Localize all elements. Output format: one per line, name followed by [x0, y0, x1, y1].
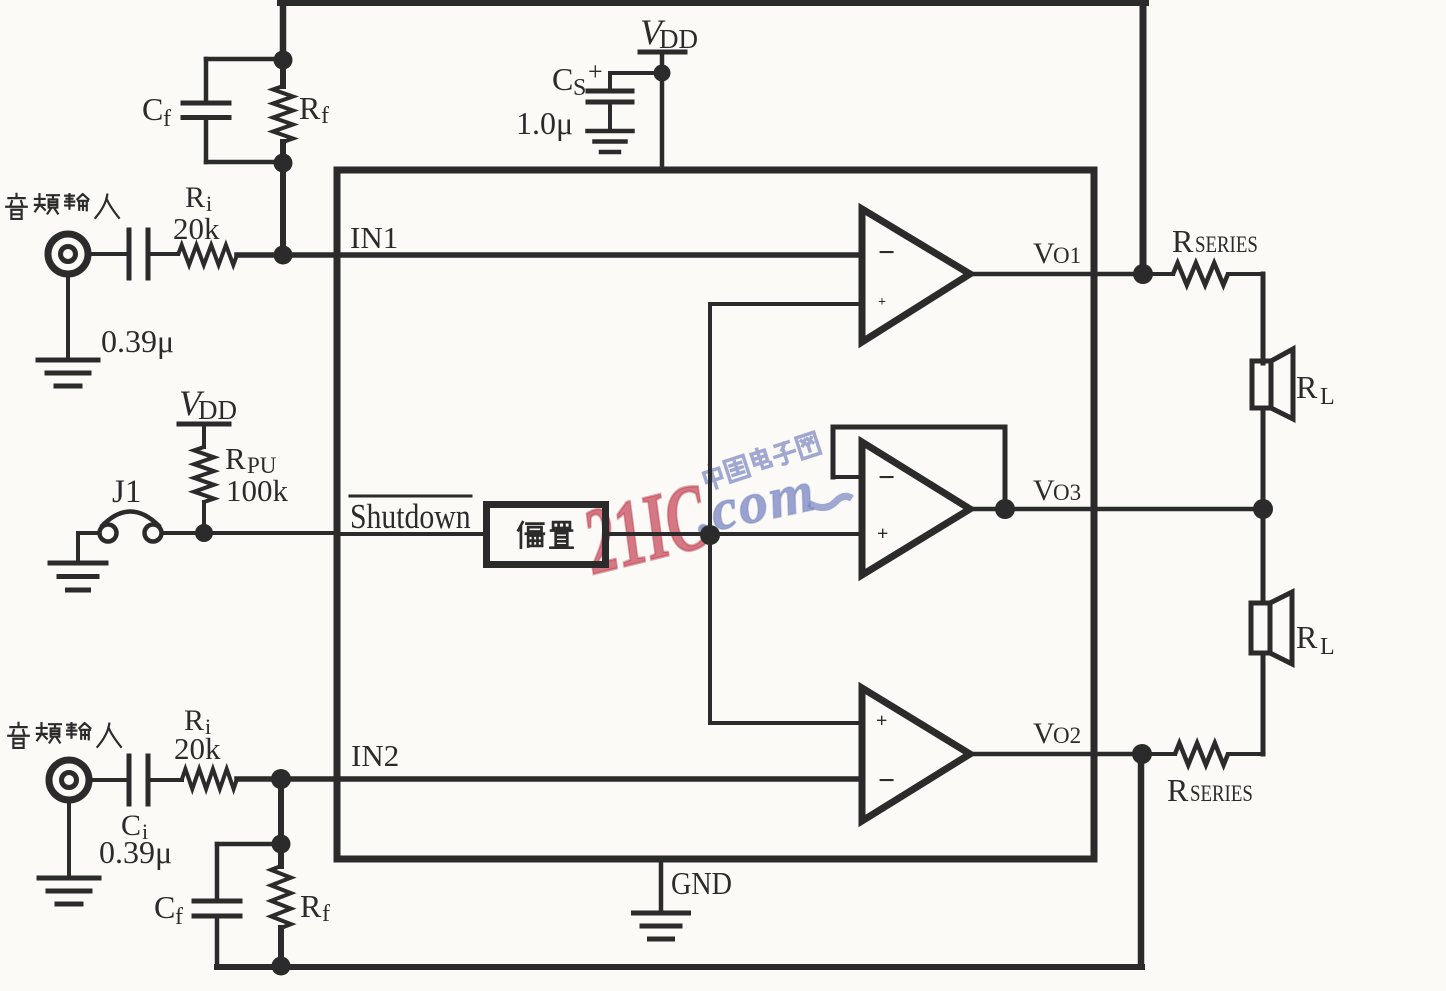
svg-text:R: R — [1172, 223, 1194, 259]
svg-text:C: C — [154, 889, 175, 925]
svg-text:+: + — [878, 295, 886, 310]
svg-text:R: R — [1296, 619, 1318, 655]
svg-text:0.39μ: 0.39μ — [99, 834, 172, 870]
svg-text:R: R — [300, 888, 322, 924]
svg-text:L: L — [1320, 384, 1335, 410]
svg-text:R: R — [225, 441, 246, 476]
svg-text:SERIES: SERIES — [1190, 780, 1253, 806]
svg-text:+: + — [877, 523, 888, 545]
svg-text:−: − — [878, 764, 895, 797]
svg-text:GND: GND — [671, 865, 732, 901]
svg-text:Shutdown: Shutdown — [350, 498, 471, 537]
svg-text:20k: 20k — [173, 211, 220, 246]
svg-text:0.39μ: 0.39μ — [101, 323, 174, 359]
svg-text:O1: O1 — [1053, 243, 1081, 268]
svg-text:R: R — [299, 90, 321, 126]
svg-text:R: R — [1296, 369, 1318, 405]
svg-text:100k: 100k — [226, 473, 289, 508]
svg-text:R: R — [185, 181, 205, 214]
svg-text:f: f — [321, 103, 329, 129]
svg-text:DD: DD — [659, 24, 698, 54]
svg-text:f: f — [175, 904, 183, 930]
svg-text:L: L — [1320, 634, 1335, 660]
svg-text:V: V — [1033, 717, 1055, 750]
svg-text:V: V — [1033, 474, 1055, 507]
svg-text:+: + — [588, 57, 603, 86]
svg-text:1.0μ: 1.0μ — [516, 105, 573, 141]
svg-text:C: C — [142, 91, 163, 127]
svg-text:f: f — [163, 106, 171, 132]
svg-text:20k: 20k — [174, 731, 221, 766]
svg-text:IN2: IN2 — [351, 738, 399, 773]
svg-text:SERIES: SERIES — [1195, 231, 1258, 257]
svg-text:+: + — [876, 710, 887, 732]
svg-text:IN1: IN1 — [350, 220, 398, 255]
svg-text:f: f — [322, 901, 330, 927]
svg-text:R: R — [1167, 772, 1189, 808]
svg-text:C: C — [552, 61, 573, 97]
svg-text:−: − — [878, 461, 895, 494]
svg-text:V: V — [1033, 237, 1055, 270]
svg-text:O3: O3 — [1053, 480, 1081, 505]
svg-text:J1: J1 — [112, 474, 141, 510]
svg-text:DD: DD — [198, 395, 237, 425]
svg-text:O2: O2 — [1053, 723, 1081, 748]
svg-text:S: S — [573, 75, 586, 101]
svg-text:−: − — [878, 236, 895, 269]
